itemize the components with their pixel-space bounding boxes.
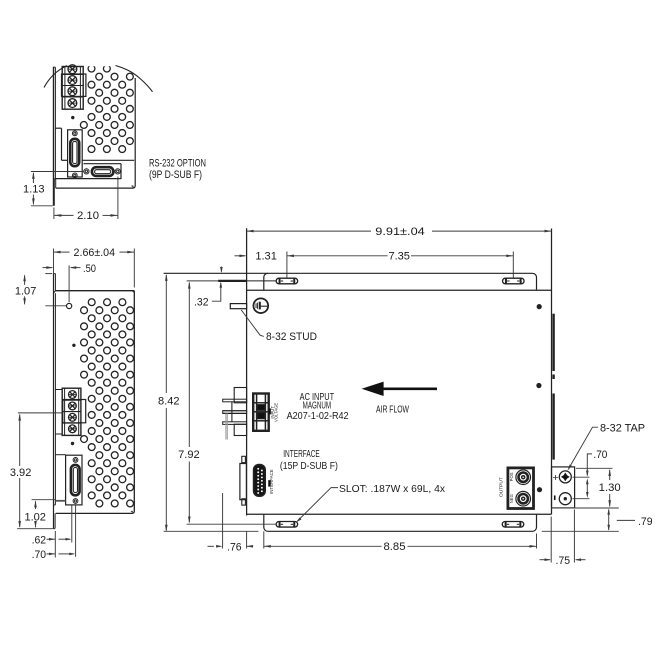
svg-text:8-32 STUD: 8-32 STUD: [266, 331, 317, 343]
svg-text:POS: POS: [509, 472, 514, 481]
svg-text:+: +: [553, 472, 559, 484]
svg-text:.70: .70: [593, 449, 607, 461]
svg-text:A207-1-02-R42: A207-1-02-R42: [287, 411, 349, 422]
svg-text:9.91±.04: 9.91±.04: [375, 226, 425, 238]
svg-text:.79: .79: [638, 516, 653, 528]
svg-text:1.07: 1.07: [15, 285, 37, 297]
svg-text:.70: .70: [32, 549, 46, 561]
svg-text:.75: .75: [556, 555, 571, 567]
svg-text:3.92: 3.92: [10, 467, 32, 479]
svg-text:SLOT: .187W x 69L, 4x: SLOT: .187W x 69L, 4x: [339, 484, 446, 495]
svg-text:1.31: 1.31: [255, 251, 277, 263]
svg-text:.32: .32: [194, 296, 209, 308]
svg-text:.50: .50: [83, 263, 96, 275]
svg-text:NEG: NEG: [509, 494, 514, 503]
svg-text:.62: .62: [32, 534, 46, 546]
svg-text:AIR FLOW: AIR FLOW: [376, 404, 409, 415]
svg-text:(15P D-SUB F): (15P D-SUB F): [280, 461, 338, 472]
svg-text:RS-232 OPTION: RS-232 OPTION: [149, 158, 206, 170]
svg-text:7.35: 7.35: [388, 251, 410, 263]
svg-text:7.92: 7.92: [178, 449, 200, 461]
svg-text:2.66±.04: 2.66±.04: [74, 247, 116, 259]
svg-text:1.13: 1.13: [23, 183, 45, 195]
svg-text:OUTPUT: OUTPUT: [498, 477, 504, 497]
svg-text:2.10: 2.10: [77, 210, 99, 222]
svg-text:.76: .76: [227, 541, 242, 553]
svg-text:(9P D-SUB F): (9P D-SUB F): [149, 169, 202, 181]
svg-text:8.42: 8.42: [158, 395, 180, 407]
svg-text:8-32 TAP: 8-32 TAP: [600, 422, 645, 434]
svg-text:INTERFACE: INTERFACE: [283, 449, 320, 460]
svg-text:1.30: 1.30: [599, 482, 621, 494]
svg-text:1.02: 1.02: [24, 511, 46, 523]
svg-text:VOLTAGE: VOLTAGE: [274, 403, 279, 422]
svg-text:8.85: 8.85: [384, 541, 406, 553]
